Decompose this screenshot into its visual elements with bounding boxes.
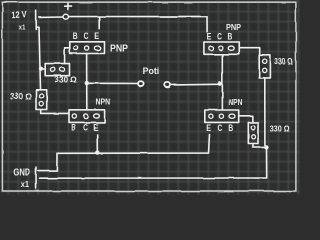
wire 12V terminal down to node A: [37, 27, 41, 89]
svg-text:C: C: [83, 122, 88, 132]
wire Q3 emitter down to node E: [96, 135, 98, 152]
svg-text:E: E: [94, 31, 99, 41]
svg-text:330 Ω: 330 Ω: [270, 125, 290, 134]
wire Q2 collector to Q4 collector: [221, 55, 223, 110]
svg-text:E: E: [207, 32, 212, 42]
svg-text:B: B: [73, 31, 78, 41]
wire Q1 collector to node B to Q3 collector: [86, 54, 88, 110]
resistor R3 330: [259, 55, 293, 78]
wire R2 to Q3 base: [41, 110, 69, 114]
svg-text:x1: x1: [21, 180, 30, 189]
transistor Q4 NPN (bottom right): [205, 97, 243, 133]
node A junction: [39, 67, 43, 71]
svg-text:330 Ω: 330 Ω: [275, 58, 294, 67]
svg-text:Poti: Poti: [143, 65, 160, 76]
wire node A to R1: [41, 68, 45, 70]
wire R3 to node D: [265, 78, 267, 147]
svg-text:B: B: [228, 32, 233, 42]
svg-text:C: C: [217, 32, 222, 42]
potentiometer terminal 2: [165, 82, 171, 87]
terminal 12V: [11, 9, 36, 31]
svg-text:E: E: [93, 122, 98, 132]
node D junction: [264, 145, 268, 149]
svg-text:NPN: NPN: [96, 98, 111, 107]
resistor R2 330 (left): [10, 90, 47, 110]
svg-text:330 Ω: 330 Ω: [10, 92, 32, 102]
svg-text:PNP: PNP: [110, 43, 128, 54]
node C junction: [218, 82, 222, 86]
svg-text:C: C: [84, 31, 89, 41]
wire R4 to node D: [253, 144, 264, 148]
transistor Q1 PNP (top left): [70, 31, 129, 54]
svg-text:NPN: NPN: [228, 97, 242, 107]
wire poti terminal 2 to node C: [171, 83, 217, 86]
wire node D to GND rail: [40, 150, 267, 179]
potentiometer terminal 1: [138, 81, 144, 86]
wire Q4 base to R4: [239, 116, 253, 123]
resistor R4 330: [248, 122, 290, 143]
wire R1 to Q1 base: [65, 48, 70, 64]
svg-text:12 V: 12 V: [11, 9, 28, 20]
wire 12V terminal to + node: [39, 16, 63, 18]
wire Q2 base to R3: [240, 48, 260, 56]
transistor Q2 PNP (top right): [204, 23, 242, 54]
wire +12V rail to Q2 emitter: [69, 16, 207, 31]
svg-text:C: C: [218, 123, 223, 133]
transistor Q3 NPN (bottom left): [69, 98, 111, 132]
wire rail stub to Q1 emitter: [98, 17, 100, 29]
wire GND to Q3/Q4 emitters: [38, 135, 210, 171]
svg-text:x1: x1: [19, 23, 26, 32]
wire node B to poti terminal 1: [89, 82, 137, 84]
svg-text:B: B: [228, 123, 233, 133]
node B junction: [85, 81, 89, 85]
svg-text:PNP: PNP: [226, 23, 242, 32]
svg-text:GND: GND: [13, 167, 30, 178]
node + (12V test point): [63, 3, 72, 19]
svg-text:E: E: [206, 123, 211, 133]
svg-text:330 Ω: 330 Ω: [55, 74, 77, 84]
node E junction: [95, 150, 99, 154]
resistor R1 330: [45, 64, 77, 85]
terminal GND: [13, 167, 36, 189]
svg-text:B: B: [71, 122, 76, 132]
